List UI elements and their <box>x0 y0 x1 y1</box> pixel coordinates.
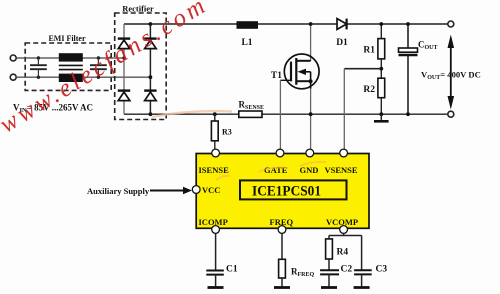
node Q1 drain rail <box>309 22 313 26</box>
svg-text:GND: GND <box>300 165 319 175</box>
node bridge bottom-right <box>149 112 153 116</box>
EMI filter dashed box <box>25 43 111 90</box>
capacitor C1 <box>206 271 224 275</box>
node CX1 bottom <box>37 76 40 79</box>
node CX2 bottom <box>97 76 100 79</box>
watermark faint arc <box>152 111 232 117</box>
ground C2 <box>321 274 337 287</box>
wire R4 top lead <box>328 236 330 239</box>
svg-text:D1: D1 <box>336 38 348 48</box>
wire bottom rail <box>124 113 448 115</box>
capacitor C3 <box>354 270 372 274</box>
node R1 top <box>379 22 383 26</box>
node CX2 top <box>97 56 100 59</box>
ground Rfreq <box>274 278 290 288</box>
node Cout top <box>406 22 410 26</box>
node bridge AC left <box>122 56 125 59</box>
transistor T1 <box>280 54 319 89</box>
wire VCOMP split horizontal <box>329 235 362 237</box>
svg-text:Auxiliary Supply: Auxiliary Supply <box>87 186 150 196</box>
wire bridge left rail <box>123 24 125 114</box>
node T1 source rail <box>309 112 313 116</box>
wire CX1 leads <box>37 58 39 77</box>
resistor R4 <box>326 239 333 259</box>
capacitor CX2 <box>90 65 107 69</box>
capacitor CX1 <box>30 65 47 69</box>
node R1 R2 junction <box>379 67 383 71</box>
wire T1 source down to rail and GND pin <box>310 89 312 153</box>
resistor R2 <box>378 78 385 98</box>
diode D1 <box>337 19 347 30</box>
wire R1-R2 link <box>380 59 382 78</box>
svg-text:VCC: VCC <box>202 185 220 195</box>
svg-text:C3: C3 <box>376 265 388 275</box>
pin VCOMP circle <box>340 226 348 234</box>
wire VCOMP down <box>343 233 345 235</box>
arrow Vout measure <box>448 35 455 110</box>
svg-text:C2: C2 <box>341 265 353 275</box>
resistor Rfreq <box>279 259 286 278</box>
pin GATE circle <box>276 149 284 157</box>
wire top rail <box>124 23 448 25</box>
wire CX2 leads <box>97 58 99 77</box>
svg-text:T1: T1 <box>271 71 282 81</box>
svg-text:ICE1PCS01: ICE1PCS01 <box>252 184 321 200</box>
wire line input top <box>16 57 124 59</box>
pin FREQ circle <box>278 226 286 234</box>
svg-text:C1: C1 <box>226 265 238 275</box>
watermark faint marks on IC <box>216 162 326 180</box>
resistor R1 <box>378 39 385 59</box>
node bridge top-right <box>149 22 153 26</box>
svg-text:R2: R2 <box>363 85 375 95</box>
resistor R3 <box>211 114 218 152</box>
resistor Rsense <box>239 111 262 117</box>
wire ICOMP down <box>215 233 217 270</box>
wire line input bottom <box>16 76 150 78</box>
output terminal bottom <box>448 111 454 117</box>
svg-text:ICOMP: ICOMP <box>199 217 228 227</box>
capacitor Cout <box>399 24 418 114</box>
wire VSENSE tap horizontal <box>344 68 381 70</box>
Rectifier dashed box <box>115 13 167 120</box>
IC U1 inner box <box>240 180 347 199</box>
capacitor C2 <box>320 270 339 274</box>
node R2 bottom <box>379 112 383 116</box>
pin ICOMP circle <box>212 226 220 234</box>
svg-text:EMI Filter: EMI Filter <box>48 34 86 43</box>
common-mode choke core <box>59 65 83 69</box>
diode bridge top-right <box>144 39 156 49</box>
input terminal bottom <box>10 74 16 80</box>
node CX1 top <box>37 56 40 59</box>
common-mode choke winding top <box>59 53 83 61</box>
transistor Q1 drain wire <box>310 24 312 61</box>
svg-text:VSENSE: VSENSE <box>325 165 358 175</box>
pin ISENSE circle <box>212 149 220 157</box>
wire C3 branch <box>361 236 363 271</box>
svg-text:VCOMP: VCOMP <box>326 217 358 227</box>
arrow auxiliary supply <box>150 187 192 195</box>
svg-text:Rectifier: Rectifier <box>122 4 154 14</box>
wire gate down to GATE pin <box>279 80 281 152</box>
wire R2 bottom lead <box>380 98 382 115</box>
pin GND circle <box>306 149 314 157</box>
IC U1 ICE1PCS01 body <box>196 154 369 229</box>
wire VSENSE vertical <box>343 69 345 153</box>
svg-text:FREQ: FREQ <box>270 217 294 227</box>
wire R1 top lead <box>380 24 382 39</box>
svg-text:ISENSE: ISENSE <box>199 165 230 175</box>
node Cout bottom <box>406 112 410 116</box>
svg-text:R1: R1 <box>363 46 375 56</box>
node R3 rail <box>213 112 217 116</box>
wire R4 to C2 <box>328 259 330 270</box>
ground C3 <box>354 274 370 287</box>
pin VSENSE circle <box>340 149 348 157</box>
diode bridge bottom-right <box>144 91 156 101</box>
svg-text:R4: R4 <box>337 248 349 258</box>
wire FREQ down <box>281 233 283 259</box>
inductor L1 <box>237 21 259 29</box>
wire bridge right rail <box>149 24 151 114</box>
svg-text:R3: R3 <box>222 128 232 137</box>
node bridge AC right <box>149 75 153 79</box>
diode bridge bottom-left <box>118 91 130 101</box>
pin VCC circle <box>192 186 200 194</box>
ground C1 <box>208 275 224 288</box>
svg-text:L1: L1 <box>241 38 252 48</box>
diode bridge top-left <box>118 39 130 49</box>
svg-text:GATE: GATE <box>264 165 288 175</box>
ground main <box>374 114 389 121</box>
input terminal top <box>10 55 16 61</box>
output terminal top <box>448 21 454 27</box>
common-mode choke winding bottom <box>59 74 83 82</box>
